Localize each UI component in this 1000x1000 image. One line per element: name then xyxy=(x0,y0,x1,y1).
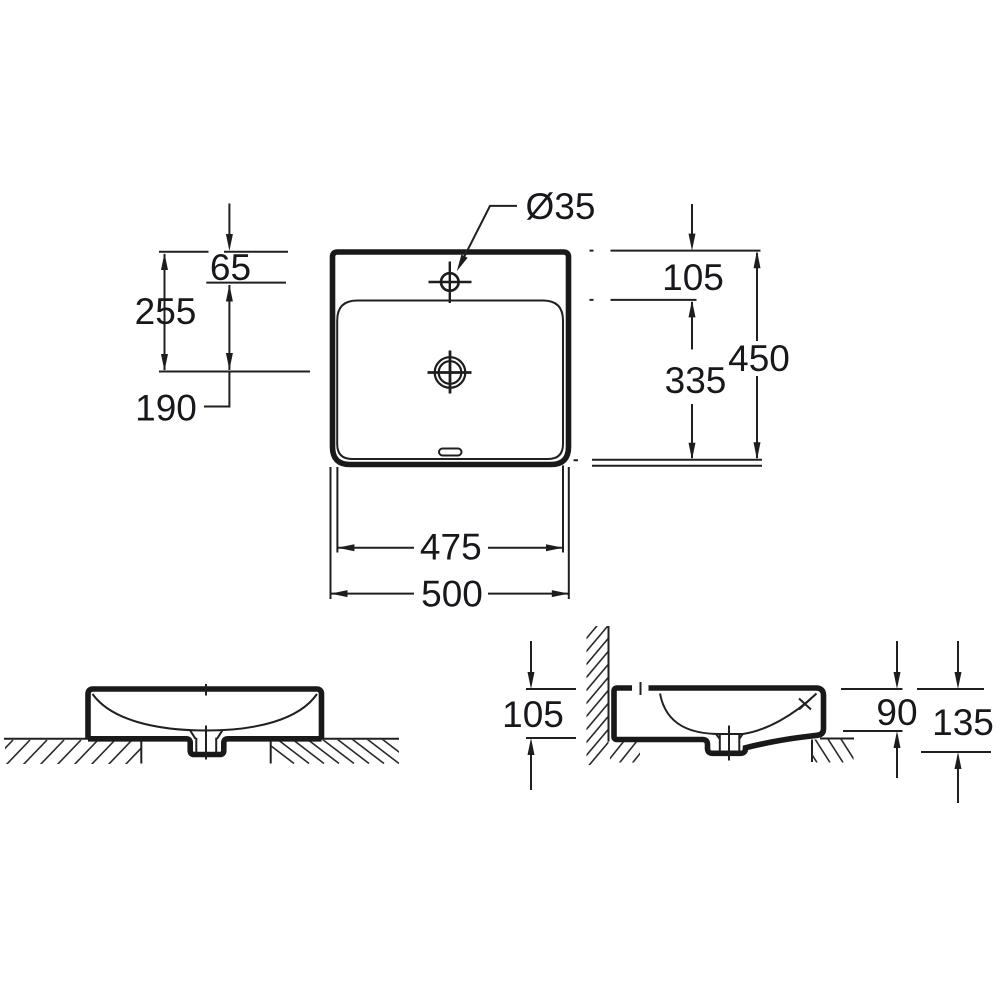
bottom double extension lines xyxy=(592,460,762,466)
svg-text:190: 190 xyxy=(135,388,197,429)
front view: right hatch left border xyxy=(270,740,272,764)
dimension 450: dim line xyxy=(756,253,758,458)
svg-text:255: 255 xyxy=(135,291,197,332)
plan view: drain inner circle xyxy=(439,361,462,384)
leader arrowhead xyxy=(457,255,468,272)
plan view: basin outer rim xyxy=(333,252,569,465)
dimension 65: extension line top edge xyxy=(159,251,288,253)
svg-text:135: 135 xyxy=(932,702,994,743)
dimension 105: bottom extension line xyxy=(611,299,697,301)
dimension 65: upper arrow xyxy=(228,204,230,244)
dimension 475: dim line xyxy=(337,547,563,549)
dimension 105 (side): upper arrow xyxy=(530,641,532,681)
dimension 255: inner dim line (65 to drain axis) xyxy=(228,285,230,370)
dimension 90: extension lines xyxy=(841,689,903,731)
side view: faucet hole tick xyxy=(640,682,642,695)
side view: wall line xyxy=(608,626,610,742)
side view: x marker xyxy=(799,699,811,710)
svg-text:65: 65 xyxy=(210,247,251,288)
dimension 105 (side): extension lines xyxy=(526,689,576,738)
side view: drain funnel xyxy=(716,734,743,752)
front view: counter hatching left xyxy=(0,740,166,765)
dimension 255: dim line with arrows xyxy=(164,254,166,370)
side view: wall hatching xyxy=(580,608,612,776)
right extension line dots xyxy=(574,251,594,461)
side view: inner basin curve xyxy=(660,694,817,735)
svg-text:Ø35: Ø35 xyxy=(526,186,596,227)
side view: counter hatch at wall base xyxy=(604,736,667,766)
drain axis extension line xyxy=(159,371,310,373)
dimension 500: dim line xyxy=(331,593,569,595)
dimension 190: leader xyxy=(204,372,229,407)
front view: center tick xyxy=(205,684,207,696)
dimension 65: extension line faucet axis xyxy=(206,282,286,284)
dimension 90: upper arrow xyxy=(896,641,898,681)
dimension 135: upper arrow xyxy=(957,641,959,681)
front view: counter hatching right (reversed) xyxy=(262,739,414,764)
dimension 105: top extension line xyxy=(611,250,761,252)
front view: basin outer body xyxy=(88,689,322,739)
leader line O35 xyxy=(460,206,518,266)
svg-text:500: 500 xyxy=(421,574,483,615)
dimension 135: lower arrow xyxy=(957,760,959,803)
dimension 335: upper arrow xyxy=(691,302,693,350)
plan view: inner basin edge xyxy=(337,301,563,460)
front view: bottom edge with drain pipe xyxy=(88,739,322,755)
front view: drain centerline xyxy=(205,726,207,760)
svg-text:105: 105 xyxy=(662,257,724,298)
front view: inner basin curve xyxy=(93,694,318,731)
dimension 90: lower arrow xyxy=(896,739,898,778)
svg-text:90: 90 xyxy=(876,692,917,733)
svg-text:335: 335 xyxy=(665,360,727,401)
side view: counter hatch right (reversed) xyxy=(801,738,869,763)
svg-text:475: 475 xyxy=(420,527,482,568)
front view: counter line xyxy=(4,738,399,740)
plan view: faucet hole crosshair xyxy=(429,262,472,304)
side view: counter hatch right border xyxy=(811,740,813,763)
dimension 500: extension lines xyxy=(331,467,569,599)
dimension 475: extension lines xyxy=(337,466,563,553)
front view: drain funnel walls xyxy=(190,730,223,753)
plan view: faucet hole circle xyxy=(441,273,459,291)
plan view: overflow slot xyxy=(439,449,462,456)
svg-text:450: 450 xyxy=(728,338,790,379)
dimension 105: upper arrow xyxy=(691,204,693,243)
svg-text:105: 105 xyxy=(502,694,564,735)
plan view: drain crosshair xyxy=(428,351,472,394)
plan view: drain outer circle xyxy=(435,357,466,388)
side view: counter line right xyxy=(820,738,854,740)
side view: drain centerline xyxy=(728,726,730,761)
dimension 105 (side): lower arrow xyxy=(530,746,532,790)
front view: left hatch right border xyxy=(140,741,142,764)
side view: basin profile outline xyxy=(614,688,824,753)
dimension 335: lower arrow xyxy=(691,404,693,458)
dimension 135: extension lines xyxy=(917,689,991,752)
